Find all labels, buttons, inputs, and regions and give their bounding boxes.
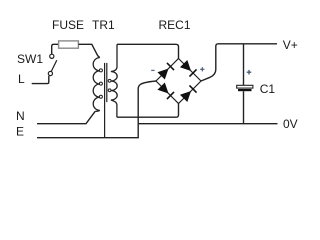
svg-text:0V: 0V xyxy=(283,117,298,131)
wire secondary top to bridge top xyxy=(117,44,179,58)
primary winding curl 2 xyxy=(99,82,102,85)
wire switch to fuse xyxy=(52,44,59,54)
transformer TR1 primary winding xyxy=(93,58,100,112)
transformer TR1 secondary winding xyxy=(111,44,117,117)
svg-text:REC1: REC1 xyxy=(159,18,191,32)
wire primary to N xyxy=(37,111,95,123)
secondary winding curl 2 xyxy=(108,89,111,92)
switch SW1 top contact xyxy=(50,54,54,58)
transformer core line left (to earth) xyxy=(104,63,106,138)
bridge minus sign xyxy=(151,69,154,71)
svg-text:E: E xyxy=(16,125,24,139)
primary winding curl 1 xyxy=(99,69,102,72)
diode D4 bottom-right xyxy=(180,85,197,102)
transformer core line right xyxy=(106,63,108,102)
capacitor C1 plus sign xyxy=(247,70,252,75)
diode D2 top-right xyxy=(180,60,197,77)
bridge rectifier REC1 diamond xyxy=(156,59,201,104)
switch SW1 bottom contact xyxy=(48,71,52,75)
wire bridge positive to V+ rail xyxy=(201,44,277,81)
switch SW1 blade xyxy=(51,60,57,71)
wire E input to bridge negative xyxy=(37,81,156,138)
svg-text:TR1: TR1 xyxy=(92,18,115,32)
primary winding curl 3 xyxy=(99,95,102,98)
wire L input to switch xyxy=(32,76,49,84)
wire secondary bottom to bridge bottom xyxy=(117,104,179,118)
svg-text:FUSE: FUSE xyxy=(52,18,84,32)
capacitor C1 top lead xyxy=(243,44,245,86)
capacitor C1 bottom lead xyxy=(243,91,245,124)
secondary winding curl 1 xyxy=(108,79,111,82)
diode D3 bottom-left xyxy=(157,82,174,99)
0V rail xyxy=(138,123,277,125)
svg-text:N: N xyxy=(16,109,25,123)
capacitor C1 top plate xyxy=(237,85,253,88)
diode D1 top-left xyxy=(157,63,174,80)
svg-text:V+: V+ xyxy=(283,38,298,52)
svg-text:C1: C1 xyxy=(260,82,276,96)
svg-text:SW1: SW1 xyxy=(17,52,43,66)
bridge plus sign xyxy=(200,67,204,71)
capacitor C1 bottom plate xyxy=(238,89,252,91)
wire fuse to transformer primary xyxy=(78,44,99,57)
svg-text:L: L xyxy=(18,72,25,86)
fuse F1 body xyxy=(59,41,79,48)
